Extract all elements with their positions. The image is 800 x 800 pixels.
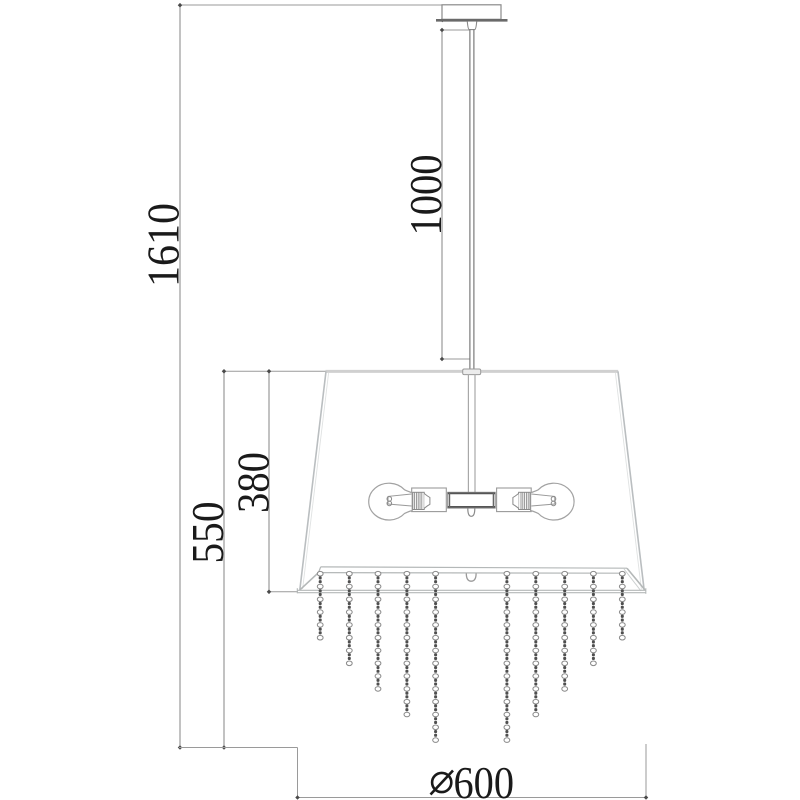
ceiling flange — [436, 19, 508, 22]
right holder box — [497, 488, 532, 512]
left bulb filament stem — [388, 494, 412, 506]
dimension line 1610 vertical — [179, 5, 181, 748]
ceiling plate — [442, 5, 501, 19]
chain bar right fold diagonal twin — [624, 569, 641, 591]
rod lower right line — [474, 375, 476, 492]
extension tick line at shade top — [442, 358, 470, 360]
shade right edge inner — [615, 373, 641, 589]
tick 600 right — [644, 795, 649, 800]
left base tip — [424, 494, 430, 509]
chain bar bottom edge — [319, 572, 626, 575]
shade left edge — [300, 371, 326, 590]
tick 1000 top — [440, 18, 445, 23]
tick 380 bottom — [267, 590, 272, 595]
bottom step line horizontal — [179, 747, 298, 749]
chain bar left end — [319, 567, 321, 573]
chain bar left fold diagonal — [300, 573, 319, 590]
svg-text:600: 600 — [454, 758, 515, 800]
dimension line 1000 vertical — [441, 30, 443, 359]
right screw hatch — [521, 493, 528, 510]
svg-text:550: 550 — [183, 502, 233, 564]
chain at x=407 — [404, 571, 410, 716]
dimension line 380 vertical — [268, 371, 270, 592]
left bulb glass — [369, 483, 412, 520]
rod upper right line — [473, 30, 475, 370]
chain at x=622 — [619, 571, 625, 640]
diameter symbol — [431, 771, 454, 795]
rod upper left line — [469, 30, 471, 370]
right screw base — [519, 492, 530, 509]
right bulb filament stem — [531, 494, 555, 506]
cup below flange — [467, 22, 476, 30]
chain at x=536 — [533, 571, 539, 716]
right bulb glass — [531, 483, 574, 520]
left holder box — [412, 488, 447, 512]
chain at x=349 — [346, 571, 352, 665]
tick 550 bottom — [222, 745, 227, 750]
chain at x=593 — [591, 571, 597, 665]
extension line 380 bottom to shade — [269, 591, 298, 593]
fixture center bar — [448, 492, 496, 508]
bar right bracket — [492, 492, 494, 508]
dimension line 550 vertical — [223, 371, 225, 747]
tick 1000 bottom — [440, 357, 445, 362]
bottom rim upper line — [297, 589, 646, 591]
right filament loops — [551, 497, 556, 502]
hook under bar — [468, 509, 475, 517]
tick 600 left — [295, 795, 300, 800]
chain at x=565 — [562, 571, 568, 691]
rod lower left line — [467, 375, 469, 492]
svg-text:380: 380 — [229, 452, 279, 513]
chain at x=507 — [504, 571, 510, 742]
left screw base — [413, 492, 424, 509]
chain at x=378 — [375, 571, 381, 691]
shade right edge — [618, 371, 644, 590]
bar top edge dark — [448, 492, 496, 494]
chain at x=436 — [433, 571, 439, 742]
bottom step line vertical left — [297, 748, 299, 798]
chain bar top edge — [321, 567, 627, 568]
right base tip — [513, 494, 519, 509]
tick 1610 bottom — [178, 745, 183, 750]
extension line at shade top going left — [224, 370, 327, 372]
center hook on chain bar — [466, 573, 476, 581]
tick 1610 top — [178, 3, 183, 8]
shade left edge inner — [303, 373, 329, 589]
svg-text:1000: 1000 — [401, 155, 451, 236]
extension tick line at rod top — [442, 29, 471, 31]
chain at x=320 — [317, 571, 323, 640]
tick 380 top — [267, 369, 272, 374]
rim right cap — [645, 588, 647, 594]
chain bar right fold diagonal — [627, 568, 645, 590]
lamp shade top edge — [326, 370, 619, 373]
bar left bracket — [449, 492, 451, 508]
extension line 600 right vertical — [645, 744, 647, 798]
left screw hatch — [415, 493, 422, 510]
extension line top horizontal — [180, 4, 442, 6]
collar at shade top — [463, 369, 481, 375]
bottom rim lower line — [297, 592, 646, 594]
rim left cap — [296, 588, 298, 593]
svg-text:1610: 1610 — [139, 203, 189, 287]
bar bottom edge dark — [448, 506, 496, 508]
dimension line 600 horizontal — [298, 797, 647, 799]
tick 550 top — [222, 369, 227, 374]
left filament loops — [387, 497, 392, 502]
